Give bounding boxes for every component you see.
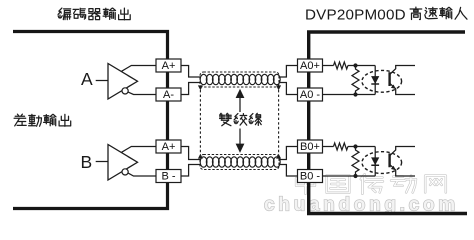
wire 2 non-inverting output (122, 147, 157, 153)
wire A input+ to resistor (323, 65, 334, 67)
wire input 2 (96, 161, 108, 163)
wire A resistor to LED anode (348, 65, 375, 67)
phototransistor QB (390, 147, 415, 177)
shield corner mark top-left (198, 85, 203, 90)
twisted-pair cable sheath A (dashed) (200, 72, 279, 87)
line driver U1 triangle (108, 64, 138, 100)
svg-text:B: B (81, 152, 93, 172)
twisted-pair cable sheath B (dashed) (200, 155, 279, 170)
inverter bubble 2 (122, 169, 128, 175)
resistor RA2 (shunt) (352, 66, 359, 95)
shield corner mark top-right (276, 85, 281, 90)
cable shield vertical dashed left (199, 90, 201, 154)
arrow up to cable A (236, 89, 245, 112)
arrow down to cable B (236, 129, 245, 153)
label: encoder output (編碼器輸出) (58, 8, 130, 20)
wire 1 non-inverting output (122, 66, 157, 72)
wire row-B + to cable (181, 147, 201, 160)
svg-text:A+: A+ (162, 141, 176, 153)
wire row-B - to cable (181, 165, 201, 177)
wire A input- return (323, 94, 376, 96)
optocoupler UB dashed ellipse (362, 152, 402, 174)
optocoupler UA dashed ellipse (362, 70, 402, 92)
terminal A+ (row B, as printed) (156, 140, 181, 153)
wire B input- return (323, 175, 376, 177)
svg-text:A-: A- (163, 89, 174, 101)
shield corner mark bottom-left (198, 154, 203, 159)
terminal B- (row B) (156, 170, 181, 183)
junction A bottom (353, 92, 357, 96)
LED DA (optocoupler emitter diode) (371, 66, 379, 95)
coil loops A (200, 74, 280, 84)
wire A- to cable (181, 83, 201, 95)
junction B bottom (353, 174, 357, 178)
left bracket: encoder side rail (13, 32, 168, 209)
label: differential output (差動輸出) (14, 114, 71, 126)
right bracket: PLC side rail (309, 32, 467, 214)
terminal B0+ (298, 140, 323, 153)
inverter bubble 1 (122, 88, 128, 94)
line driver U2 triangle (108, 145, 138, 181)
svg-text:A0 -: A0 - (300, 89, 321, 101)
svg-text:A: A (81, 69, 93, 89)
wire cable to B0+ (279, 147, 298, 160)
svg-text:B -: B - (161, 171, 175, 183)
wire input 1 (96, 80, 108, 82)
terminal A0- (298, 88, 323, 101)
wire B input+ to resistor (323, 146, 334, 148)
svg-text:A+: A+ (162, 60, 176, 72)
svg-text:B0 -: B0 - (300, 171, 321, 183)
terminal A0+ (298, 59, 323, 72)
wire B resistor to LED anode (348, 146, 375, 148)
phototransistor QA (390, 66, 415, 95)
terminal A+ (row A) (156, 59, 181, 72)
resistor RA1 (series) (334, 62, 348, 69)
label: twisted pair (雙絞線) (220, 113, 262, 125)
junction B top (353, 144, 357, 148)
terminal B0- (298, 170, 323, 183)
LED DB (optocoupler emitter diode) (371, 147, 379, 177)
resistor RB1 (series) (334, 143, 348, 150)
wire 2 inverting output (128, 173, 156, 176)
wire cable to A0+ (279, 66, 298, 78)
coil loops B (200, 157, 280, 167)
cable shield vertical dashed right (278, 90, 280, 154)
wire cable to A0- (279, 83, 298, 95)
svg-text:A0+: A0+ (300, 60, 320, 72)
shield corner mark bottom-right (276, 154, 281, 159)
svg-text:B0+: B0+ (300, 141, 320, 153)
terminal A- (row A) (156, 88, 181, 101)
wire A+ to cable (181, 66, 201, 78)
watermark (site logo text) (264, 174, 459, 216)
junction A top (353, 63, 357, 67)
wire 1 inverting output (128, 92, 156, 94)
wire cable to B0- (279, 165, 298, 177)
resistor RB2 (shunt) (352, 147, 359, 177)
svg-text:DVP20PM00D: DVP20PM00D (305, 7, 406, 24)
